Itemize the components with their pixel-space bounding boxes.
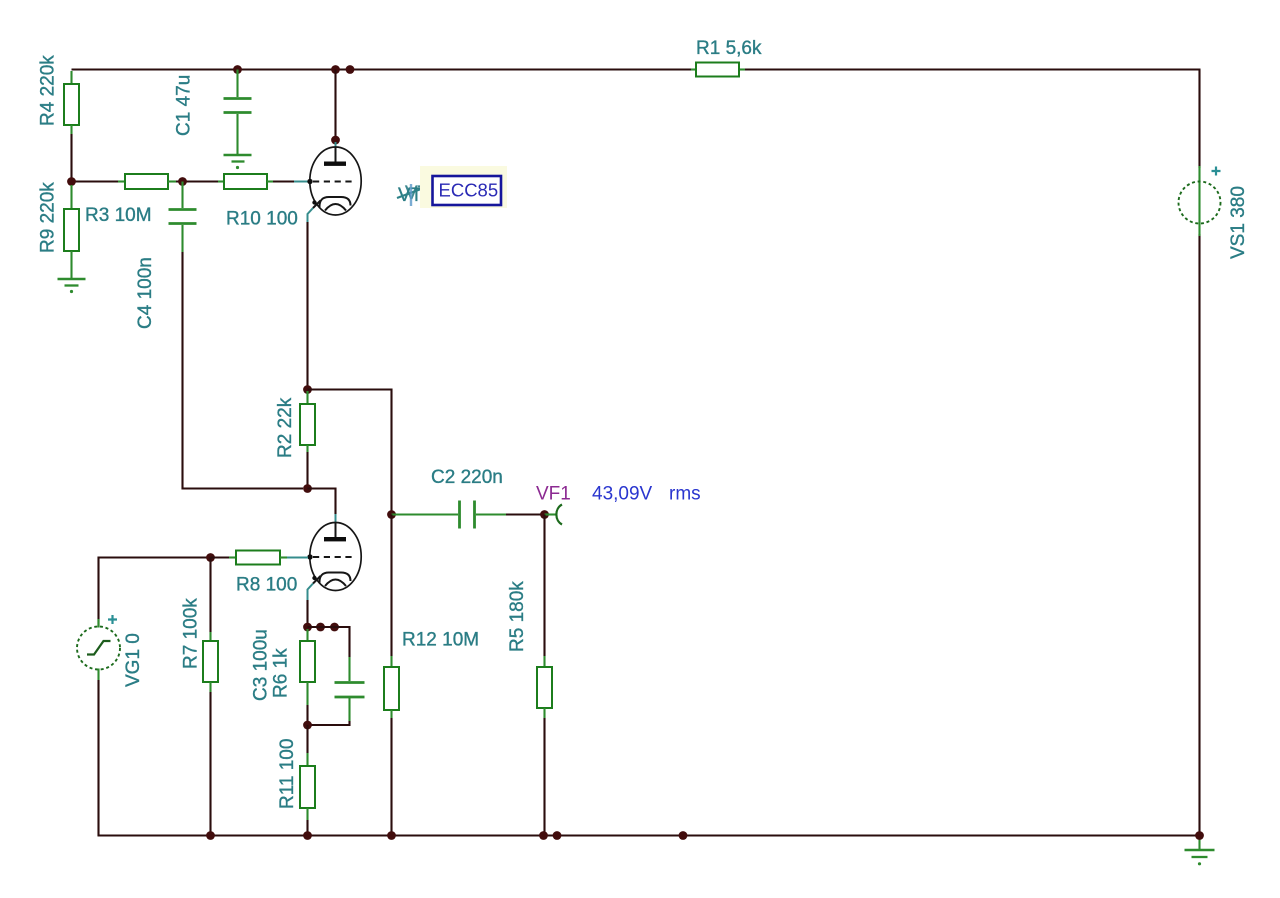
highlight behind ECC85 box (420, 166, 507, 208)
ground under R9 (58, 279, 86, 293)
wire right bus upper (to VS1) (1198, 70, 1200, 169)
wire bottom bus (98, 834, 1201, 836)
svg-text:R9 220k: R9 220k (38, 182, 59, 253)
svg-text:VS1 380: VS1 380 (1228, 186, 1249, 259)
junction bottom bus at R5 (539, 831, 548, 840)
label 43,09V (592, 484, 653, 505)
resistor R7 (203, 558, 218, 837)
resistor R2 (300, 391, 315, 489)
capacitor C1 (224, 70, 252, 155)
resistor R11 (300, 725, 315, 836)
plus sign VG1 (108, 615, 117, 624)
label C3 100u (251, 629, 272, 701)
generator VG1 (77, 619, 120, 836)
svg-text:VF1: VF1 (536, 484, 571, 505)
resistor R6 (300, 629, 315, 726)
junction C4 node (178, 177, 187, 186)
svg-text:R8 100: R8 100 (236, 575, 297, 596)
junction bottom bus mid dot (679, 831, 688, 840)
wire VG1 top to R8 row (99, 558, 211, 628)
wire cathode node to R12 column (308, 390, 392, 515)
triode VT1b (ECC85 half) (307, 514, 361, 600)
junction cathode row dot 2 (316, 623, 325, 632)
label R1 5,6k (696, 38, 762, 59)
capacitor C4 (169, 182, 197, 253)
label R9 220k (38, 182, 59, 253)
voltage source VS1 (1179, 166, 1221, 236)
label VF1 (536, 484, 571, 505)
label R2 22k (275, 397, 296, 458)
svg-text:R10 100: R10 100 (226, 209, 298, 230)
resistor R9 (64, 185, 79, 278)
svg-text:R1 5,6k: R1 5,6k (696, 38, 762, 59)
label C4 100n (135, 257, 156, 329)
resistor R4 (64, 71, 79, 182)
wire cathode VT1b down (306, 600, 308, 627)
voltage probe VF1 (545, 505, 563, 525)
svg-text:C3 100u: C3 100u (251, 629, 272, 701)
label box ECC85 (433, 176, 502, 205)
junction top bus extra dot (346, 65, 355, 74)
ground under C1 (224, 155, 252, 169)
resistor R10 (218, 174, 273, 189)
label VT1 (garbled) (397, 183, 440, 207)
wire C4 down and right to R2 bottom node (183, 252, 304, 489)
junction C2 left node (387, 510, 396, 519)
label C1 47u (174, 75, 195, 136)
wire top bus left of R1 (72, 68, 692, 70)
wire top bus right of R1 (745, 68, 1201, 70)
svg-text:C2 220n: C2 220n (431, 467, 503, 488)
wire plate feed tube VT1a (334, 70, 336, 140)
junction top bus at plate feed (331, 65, 340, 74)
resistor R8 (211, 551, 309, 565)
svg-text:R5 180k: R5 180k (507, 581, 528, 652)
capacitor C3 (308, 657, 365, 725)
wire cathode VT1a down (306, 222, 308, 390)
label R12 10M (402, 630, 479, 651)
junction cathode row dot 1 (303, 623, 312, 632)
label R7 100k (181, 598, 202, 669)
junction cathode row dot 3 (330, 623, 339, 632)
svg-text:rms: rms (669, 484, 701, 505)
label R5 180k (507, 581, 528, 652)
label R11 100 (277, 739, 298, 809)
wire grid row y181 (72, 180, 119, 182)
label R6 1k (271, 648, 292, 698)
label C2 220n (431, 467, 503, 488)
svg-text:43,09V: 43,09V (592, 484, 653, 505)
triode VT1a (ECC85 half) (307, 142, 361, 222)
wire R2 node to plate VT1b (308, 489, 336, 515)
svg-text:R2 22k: R2 22k (275, 397, 296, 458)
svg-text:ECC85: ECC85 (439, 180, 499, 201)
label rms (669, 484, 701, 505)
plus sign VS1 (1212, 167, 1221, 176)
svg-text:R7 100k: R7 100k (181, 598, 202, 669)
svg-text:VG1 0: VG1 0 (123, 633, 144, 687)
resistor R12 (384, 515, 399, 837)
svg-text:R11 100: R11 100 (277, 739, 298, 809)
resistor R1 (691, 63, 745, 77)
junction plate VT1a (331, 136, 340, 145)
label R10 100 (226, 209, 298, 230)
wire cathode row to C3 branch (308, 627, 350, 657)
wire right bus lower (VS1 to bottom) (1198, 234, 1200, 837)
svg-text:R3 10M: R3 10M (85, 205, 152, 226)
label VG1 0 (123, 633, 144, 687)
resistor R5 (537, 515, 552, 837)
svg-text:R4 220k: R4 220k (38, 55, 59, 126)
resistor R3 (118, 174, 176, 189)
junction cathode node VT1a (303, 385, 312, 394)
junction R4/R9/R3 node (67, 177, 76, 186)
junction VF1 node (540, 510, 549, 519)
capacitor C2 (392, 501, 545, 529)
junction R7 top (206, 553, 215, 562)
svg-text:C4 100n: C4 100n (135, 257, 156, 329)
svg-text:C1 47u: C1 47u (174, 75, 195, 136)
junction bottom bus at R7 (206, 831, 215, 840)
label VS1 380 (1228, 186, 1249, 259)
label R4 220k (38, 55, 59, 126)
junction bottom bus at R12 (387, 831, 396, 840)
junction bottom bus at R11 (303, 831, 312, 840)
ground bottom right (1185, 837, 1215, 866)
junction R2 bottom node (303, 484, 312, 493)
wire R3 to R10 (176, 180, 218, 182)
svg-text:R12 10M: R12 10M (402, 630, 479, 651)
label R8 100 (236, 575, 297, 596)
junction top bus at C1 (233, 65, 242, 74)
label R3 10M (85, 205, 152, 226)
junction R6 bottom node (303, 721, 312, 730)
junction bottom bus extra dot (553, 831, 562, 840)
wire R10 to tube grid (273, 180, 308, 182)
junction bottom bus right corner (1195, 831, 1204, 840)
svg-text:R6 1k: R6 1k (271, 648, 292, 698)
